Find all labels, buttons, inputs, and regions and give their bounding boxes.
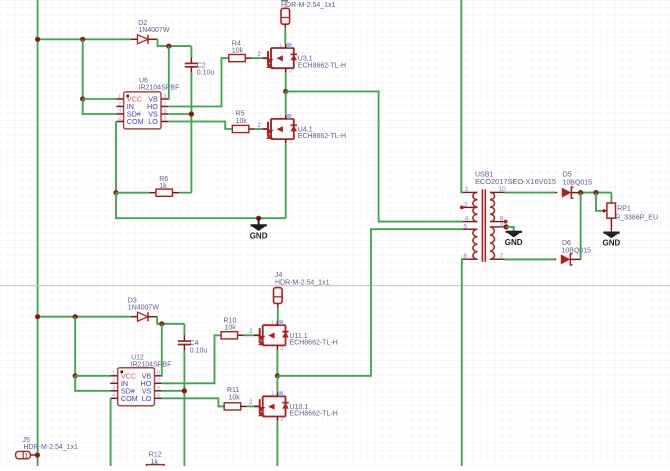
svg-text:C4: C4 <box>190 340 199 347</box>
svg-text:R4: R4 <box>232 40 241 47</box>
svg-text:3: 3 <box>289 140 292 146</box>
svg-text:2: 2 <box>118 101 121 107</box>
svg-text:9: 9 <box>500 216 504 223</box>
svg-text:C2: C2 <box>197 62 206 69</box>
svg-text:D5: D5 <box>563 172 572 179</box>
svg-text:10k: 10k <box>225 324 237 331</box>
svg-text:GND: GND <box>250 231 268 240</box>
svg-text:D6: D6 <box>562 240 571 247</box>
svg-text:IR2104SPBF: IR2104SPBF <box>139 84 180 91</box>
svg-text:J4: J4 <box>275 272 283 279</box>
svg-text:7: 7 <box>157 378 160 384</box>
svg-text:HDR-M-2.54_1x1: HDR-M-2.54_1x1 <box>281 2 336 9</box>
svg-text:R11: R11 <box>227 387 239 394</box>
svg-text:D2: D2 <box>138 20 147 27</box>
svg-text:10k: 10k <box>229 394 241 401</box>
svg-text:3: 3 <box>112 386 115 392</box>
svg-text:10BQ015: 10BQ015 <box>562 247 592 254</box>
svg-text:GND: GND <box>603 239 621 248</box>
svg-text:HDR-M-2.54_1x1: HDR-M-2.54_1x1 <box>275 279 330 286</box>
svg-text:2: 2 <box>464 201 468 208</box>
svg-text:5: 5 <box>157 393 160 399</box>
svg-text:1: 1 <box>271 320 274 326</box>
svg-text:R_3386P_EU: R_3386P_EU <box>615 215 658 222</box>
svg-text:10k: 10k <box>236 118 248 125</box>
svg-text:1: 1 <box>112 371 115 377</box>
svg-text:10BQ015: 10BQ015 <box>563 180 593 187</box>
svg-text:ECH8662-TL-H: ECH8662-TL-H <box>290 411 338 418</box>
svg-text:1k: 1k <box>159 183 167 190</box>
svg-text:4: 4 <box>112 393 115 399</box>
svg-text:7: 7 <box>164 101 167 107</box>
svg-text:RP1: RP1 <box>617 206 631 213</box>
svg-text:0.10u: 0.10u <box>190 347 208 354</box>
svg-text:ECO2017SEO-X16V015: ECO2017SEO-X16V015 <box>475 177 556 186</box>
svg-text:2: 2 <box>112 378 115 384</box>
svg-text:5: 5 <box>463 223 467 230</box>
svg-text:ECH8662-TL-H: ECH8662-TL-H <box>298 133 346 140</box>
svg-text:GND: GND <box>505 238 523 247</box>
svg-text:10k: 10k <box>232 47 244 54</box>
svg-text:6: 6 <box>463 253 467 260</box>
svg-text:1N4007W: 1N4007W <box>128 305 160 312</box>
svg-text:4: 4 <box>465 216 469 223</box>
svg-text:R6: R6 <box>159 176 168 183</box>
svg-text:LO: LO <box>142 394 152 403</box>
svg-text:1: 1 <box>271 391 274 397</box>
svg-text:J5: J5 <box>23 437 31 444</box>
svg-text:1: 1 <box>279 43 282 49</box>
svg-text:3: 3 <box>118 109 121 115</box>
svg-text:4: 4 <box>118 116 121 122</box>
svg-text:8: 8 <box>500 223 504 230</box>
svg-text:COM: COM <box>121 394 138 403</box>
svg-text:3: 3 <box>289 69 292 75</box>
svg-text:R5: R5 <box>236 111 245 118</box>
svg-text:D3: D3 <box>128 298 137 305</box>
svg-text:1N4007W: 1N4007W <box>138 27 170 34</box>
svg-text:R10: R10 <box>224 317 237 324</box>
svg-text:6: 6 <box>157 386 160 392</box>
svg-text:1: 1 <box>118 94 121 100</box>
svg-text:3: 3 <box>280 346 283 352</box>
svg-text:HDR-M-2.54_1x1: HDR-M-2.54_1x1 <box>24 444 79 451</box>
svg-text:ECH8662-TL-H: ECH8662-TL-H <box>290 340 338 347</box>
svg-text:3: 3 <box>280 417 283 423</box>
svg-text:U6: U6 <box>139 77 148 84</box>
svg-text:0.10u: 0.10u <box>197 70 215 77</box>
svg-text:7: 7 <box>500 253 504 260</box>
svg-text:1: 1 <box>465 186 469 193</box>
svg-text:8: 8 <box>164 94 167 100</box>
svg-text:5: 5 <box>164 116 167 122</box>
svg-text:COM: COM <box>127 117 144 126</box>
svg-text:R12: R12 <box>149 451 162 458</box>
svg-text:8: 8 <box>157 371 160 377</box>
svg-text:1: 1 <box>279 114 282 120</box>
svg-text:IR2104SPBF: IR2104SPBF <box>131 362 172 369</box>
svg-text:ECH8662-TL-H: ECH8662-TL-H <box>298 62 346 69</box>
svg-text:U12: U12 <box>131 354 144 361</box>
svg-text:6: 6 <box>164 109 167 115</box>
svg-text:LO: LO <box>148 117 158 126</box>
